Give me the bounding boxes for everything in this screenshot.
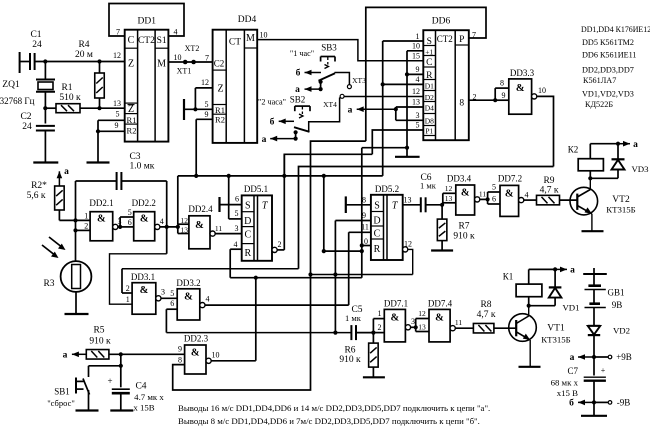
svg-text:10: 10 bbox=[412, 42, 420, 51]
svg-text:3: 3 bbox=[235, 224, 239, 233]
DD5.1 R input bbox=[230, 249, 242, 278]
svg-text:R1: R1 bbox=[61, 83, 72, 93]
DD7.2 output 4 bbox=[519, 191, 537, 203]
svg-text:1: 1 bbox=[416, 32, 420, 41]
svg-text:R2: R2 bbox=[127, 126, 137, 136]
NAND DD2.4 bbox=[181, 204, 214, 249]
svg-text:12: 12 bbox=[412, 87, 420, 96]
svg-text:6: 6 bbox=[492, 195, 496, 204]
svg-text:1 мк: 1 мк bbox=[420, 181, 437, 191]
NAND DD2.3 bbox=[178, 334, 209, 375]
svg-text:6: 6 bbox=[128, 218, 132, 227]
svg-text:&: & bbox=[140, 214, 149, 225]
svg-text:CT2: CT2 bbox=[437, 34, 453, 44]
svg-text:Z: Z bbox=[128, 59, 134, 70]
svg-text:DD2,DD3,DD7: DD2,DD3,DD7 bbox=[582, 66, 634, 75]
svg-text:SB1: SB1 bbox=[54, 387, 70, 397]
svg-text:5: 5 bbox=[235, 209, 239, 218]
DD7.1 input wires bbox=[373, 309, 384, 333]
svg-text:а: а bbox=[262, 135, 267, 145]
svg-text:1: 1 bbox=[84, 212, 88, 221]
svg-text:R: R bbox=[426, 71, 433, 81]
wire DD6 out2 to DD3.3 inputs bbox=[469, 79, 509, 103]
wire C3 to DD3.1 pin1 bbox=[110, 254, 167, 304]
wire reset bus bbox=[230, 148, 371, 280]
svg-text:C: C bbox=[374, 229, 381, 240]
wire C3 right vertical bbox=[165, 181, 169, 254]
wire DD3.1 pin2 bus bbox=[122, 269, 299, 293]
wire DD4 M out to DD6 C bbox=[257, 40, 423, 61]
svg-text:1: 1 bbox=[126, 295, 130, 304]
svg-text:9В: 9В bbox=[612, 300, 623, 310]
diode VD3 bbox=[612, 144, 650, 179]
wire B1 to y251 link bbox=[322, 176, 364, 253]
DD3.1 output 3 bbox=[156, 288, 177, 301]
svg-text:а: а bbox=[348, 106, 353, 116]
svg-text:68 мк х: 68 мк х bbox=[551, 378, 579, 388]
svg-text:х 15В: х 15В bbox=[133, 403, 154, 413]
DD2.2 output 4 bbox=[155, 217, 180, 229]
svg-text:S: S bbox=[245, 201, 251, 212]
svg-text:910 к: 910 к bbox=[453, 232, 475, 242]
svg-text:DD5.2: DD5.2 bbox=[375, 184, 399, 194]
DD7.2 input wires bbox=[488, 183, 500, 205]
ground (VT1) bbox=[519, 366, 541, 368]
svg-text:3: 3 bbox=[416, 111, 420, 120]
svg-text:К561ЛА7: К561ЛА7 bbox=[583, 76, 616, 85]
svg-text:VT1: VT1 bbox=[547, 324, 565, 334]
node a (K2) bbox=[616, 140, 638, 150]
svg-text:5,6 к: 5,6 к bbox=[27, 191, 46, 201]
svg-text:8: 8 bbox=[459, 99, 464, 109]
svg-text:P1: P1 bbox=[425, 127, 433, 136]
svg-text:DD3.4: DD3.4 bbox=[447, 174, 472, 184]
svg-text:R: R bbox=[374, 244, 381, 255]
svg-text:&: & bbox=[505, 188, 514, 199]
DD5.2 S bar tie bbox=[346, 196, 371, 213]
svg-text:DD1,DD4 К176ИЕ12: DD1,DD4 К176ИЕ12 bbox=[581, 25, 650, 34]
svg-text:R3: R3 bbox=[43, 279, 54, 289]
svg-text:DD2.1: DD2.1 bbox=[89, 198, 113, 208]
svg-text:DD2.3: DD2.3 bbox=[184, 334, 209, 344]
capacitor C2 bbox=[20, 108, 54, 162]
wire DD1 feedback loop pin4 to pin7 bbox=[109, 4, 184, 37]
svg-text:4: 4 bbox=[416, 75, 420, 84]
svg-text:8: 8 bbox=[362, 196, 366, 205]
wire DD2.1 pin2 / R3 column bbox=[73, 220, 90, 261]
svg-text:1 мк: 1 мк bbox=[345, 313, 362, 323]
svg-text:КТ315Б: КТ315Б bbox=[541, 335, 571, 345]
NAND DD2.1 bbox=[84, 198, 113, 241]
svg-text:R4: R4 bbox=[78, 40, 89, 50]
svg-text:"1 час": "1 час" bbox=[290, 49, 314, 58]
svg-text:Z: Z bbox=[128, 104, 134, 115]
svg-text:a: a bbox=[63, 351, 68, 361]
wire to net b (SB3) bbox=[296, 68, 321, 79]
svg-text:"2 часа": "2 часа" bbox=[258, 98, 286, 107]
DD3.4 output 11 bbox=[475, 190, 490, 202]
svg-text:1: 1 bbox=[378, 309, 382, 318]
svg-text:VD2: VD2 bbox=[613, 326, 630, 336]
note line 1 bbox=[178, 403, 490, 413]
battery GB1 bbox=[583, 268, 624, 310]
svg-text:+1: +1 bbox=[425, 48, 433, 57]
DD7.4 output 11 bbox=[450, 318, 473, 331]
svg-text:13: 13 bbox=[418, 323, 426, 332]
DD3.2 pin6 wire to C5 net bbox=[166, 309, 177, 332]
NAND DD7.2 bbox=[498, 174, 522, 217]
resistor R1 bbox=[45, 83, 124, 113]
relay K2 bbox=[568, 144, 618, 181]
wire DD1 R1,R2 pins to ground bbox=[96, 120, 125, 162]
svg-text:M: M bbox=[157, 59, 166, 70]
svg-text:S: S bbox=[374, 201, 380, 212]
svg-text:КТ315Б: КТ315Б bbox=[606, 205, 636, 215]
svg-text:13: 13 bbox=[113, 99, 121, 108]
svg-text:12: 12 bbox=[445, 184, 453, 193]
ground (C4) bbox=[110, 409, 133, 411]
svg-text:S: S bbox=[427, 37, 432, 47]
DD5.1 output 2 bbox=[272, 155, 284, 253]
svg-text:11: 11 bbox=[215, 224, 222, 233]
DD2.4 input wires bbox=[178, 224, 189, 233]
wire DD1 M output / jumper XT1 XT2 bbox=[168, 44, 213, 76]
ground (battery) bbox=[581, 402, 607, 415]
svg-text:&: & bbox=[516, 83, 525, 94]
svg-text:R: R bbox=[244, 248, 251, 259]
svg-text:3: 3 bbox=[411, 317, 415, 326]
svg-text:5: 5 bbox=[492, 183, 496, 192]
svg-text:R5: R5 bbox=[93, 326, 104, 336]
wire DD6 P1 pin5 bbox=[372, 130, 423, 154]
svg-text:&: & bbox=[461, 188, 470, 199]
transistor VT1 КТ315Б bbox=[509, 306, 571, 366]
DD5.1 S bar tie bbox=[220, 197, 242, 212]
wire D2/Q2 feedback line bbox=[308, 272, 412, 276]
svg-text:"сброс": "сброс" bbox=[47, 398, 75, 408]
svg-text:12: 12 bbox=[418, 309, 426, 318]
svg-text:&: & bbox=[390, 312, 399, 323]
svg-text:a: a bbox=[570, 266, 575, 276]
svg-text:4,7 к: 4,7 к bbox=[477, 310, 496, 320]
terminal XT4 bbox=[323, 94, 344, 109]
wire DD4 pin9 to bus bbox=[196, 119, 212, 176]
wire net a to DD6 D4/D8 bbox=[348, 106, 424, 121]
wire bus B2 (count/DD3.1 net) bbox=[299, 167, 554, 269]
svg-text:VT2: VT2 bbox=[612, 195, 630, 205]
svg-text:R2: R2 bbox=[215, 115, 225, 125]
ground (R3) bbox=[65, 313, 89, 315]
svg-text:-9В: -9В bbox=[617, 398, 631, 408]
svg-text:24: 24 bbox=[22, 122, 32, 132]
ground (VT2) bbox=[582, 230, 604, 232]
svg-text:DD2.2: DD2.2 bbox=[132, 198, 156, 208]
DD5.1 D input bbox=[229, 176, 242, 219]
svg-text:13: 13 bbox=[445, 194, 453, 203]
svg-text:5: 5 bbox=[128, 208, 132, 217]
wire bus B1 (data net) bbox=[178, 174, 383, 224]
svg-text:DD7.1: DD7.1 bbox=[384, 299, 408, 309]
node: R4/R1 junction bbox=[97, 106, 101, 110]
svg-text:R7: R7 bbox=[458, 222, 469, 232]
wire SB3 to XT3 bbox=[335, 73, 350, 85]
svg-text:4: 4 bbox=[525, 191, 529, 200]
capacitor C5 bbox=[345, 305, 373, 340]
svg-text:C3: C3 bbox=[129, 152, 140, 162]
svg-text:15: 15 bbox=[412, 52, 420, 61]
svg-text:+9В: +9В bbox=[616, 352, 632, 362]
IC DD1 К176ИЕ12 (CT2) bbox=[113, 17, 182, 142]
DD5.2 C input bbox=[349, 232, 371, 305]
svg-text:DD7.2: DD7.2 bbox=[498, 174, 522, 184]
svg-text:R8: R8 bbox=[480, 300, 491, 310]
svg-text:9: 9 bbox=[502, 91, 506, 100]
resistor R8 bbox=[473, 300, 516, 333]
wire bus B4 (P net) bbox=[173, 141, 366, 390]
terminal XT3 bbox=[347, 76, 366, 89]
svg-text:5: 5 bbox=[116, 110, 120, 119]
svg-text:&: & bbox=[195, 220, 204, 231]
svg-text:б: б bbox=[296, 68, 301, 79]
wire DD6 +1/R/XT4 net bbox=[395, 51, 423, 157]
svg-text:4: 4 bbox=[160, 217, 164, 226]
wire SB2 to XT4 bbox=[309, 97, 342, 132]
photoresistor R3 bbox=[43, 261, 91, 313]
svg-text:4: 4 bbox=[206, 295, 210, 304]
svg-text:C: C bbox=[128, 35, 135, 46]
svg-text:5: 5 bbox=[416, 121, 420, 130]
wire R2* to DD2.1 pin1 bbox=[59, 218, 90, 222]
resistor R7 bbox=[437, 205, 475, 250]
svg-text:2: 2 bbox=[378, 323, 382, 332]
resistor R6 bbox=[339, 333, 378, 377]
svg-text:11: 11 bbox=[479, 190, 486, 199]
note line 2 bbox=[178, 416, 480, 426]
capacitor C3 bbox=[76, 152, 167, 220]
relay K1 bbox=[503, 269, 555, 307]
svg-text:8: 8 bbox=[178, 356, 182, 365]
svg-text:5: 5 bbox=[170, 289, 174, 298]
resistor R9 bbox=[537, 176, 578, 205]
svg-text:3: 3 bbox=[161, 288, 165, 297]
svg-text:ZQ1: ZQ1 bbox=[2, 80, 20, 90]
svg-text:К1: К1 bbox=[503, 272, 514, 282]
svg-text:б: б bbox=[270, 117, 275, 128]
capacitor C7 bbox=[551, 357, 606, 402]
wire to net b (SB2) bbox=[270, 117, 294, 128]
svg-text:1.0 мк: 1.0 мк bbox=[130, 162, 155, 172]
svg-text:510 к: 510 к bbox=[59, 93, 81, 103]
node: R1/crystal junction bbox=[43, 106, 47, 110]
svg-text:б: б bbox=[569, 398, 574, 409]
DD7.4 input wires bbox=[416, 309, 429, 332]
svg-text:24: 24 bbox=[32, 40, 42, 50]
svg-text:VD1,VD2,VD3: VD1,VD2,VD3 bbox=[582, 90, 634, 99]
svg-text:C: C bbox=[426, 58, 432, 68]
resistor R5 bbox=[63, 326, 185, 361]
svg-text:а: а bbox=[633, 140, 638, 150]
pushbutton SB2 '2 часа' bbox=[258, 95, 310, 132]
svg-text:10: 10 bbox=[538, 86, 546, 95]
svg-text:C: C bbox=[244, 230, 251, 241]
svg-text:VD1: VD1 bbox=[562, 303, 579, 313]
svg-text:20 м: 20 м bbox=[75, 50, 93, 60]
svg-text:P: P bbox=[459, 35, 464, 45]
svg-text:Z: Z bbox=[217, 84, 223, 95]
svg-text:SB2: SB2 bbox=[290, 95, 306, 105]
ground (SB1) bbox=[76, 409, 99, 411]
DD7.1 output 3 bbox=[405, 317, 417, 330]
svg-text:DD6 К561ИЕ11: DD6 К561ИЕ11 bbox=[582, 51, 637, 60]
wire reset link to tie stem bbox=[362, 146, 409, 150]
svg-text:13: 13 bbox=[404, 196, 412, 205]
DD5.2 output 12 bbox=[403, 247, 413, 275]
NAND DD3.4 bbox=[445, 174, 475, 216]
DD2.1 output 3 bbox=[113, 217, 134, 229]
svg-text:R6: R6 bbox=[344, 346, 355, 356]
ground (R7) bbox=[431, 249, 453, 251]
svg-text:DD3.1: DD3.1 bbox=[131, 272, 155, 282]
svg-text:5: 5 bbox=[205, 100, 209, 109]
node: C1/ZQ1 junction bbox=[43, 59, 47, 63]
svg-text:4.7 мк х: 4.7 мк х bbox=[134, 392, 164, 402]
capacitor C6 bbox=[403, 173, 442, 212]
ground (R6) bbox=[363, 376, 385, 378]
diode VD2 bbox=[588, 308, 630, 358]
diode VD1 bbox=[549, 269, 580, 312]
svg-text:2: 2 bbox=[84, 222, 88, 231]
svg-text:XT3: XT3 bbox=[352, 76, 366, 85]
svg-text:а: а bbox=[570, 353, 575, 363]
svg-text:XT2: XT2 bbox=[185, 44, 200, 53]
svg-text:DD3.2: DD3.2 bbox=[176, 278, 200, 288]
svg-text:D4: D4 bbox=[425, 104, 434, 113]
svg-text:CT: CT bbox=[229, 38, 241, 48]
svg-text:R2*: R2* bbox=[31, 181, 47, 191]
node -9V bbox=[569, 398, 630, 409]
svg-text:+: + bbox=[601, 366, 606, 375]
node C6/R7/DD3.4 bbox=[440, 203, 444, 207]
DD2.3 output 10 bbox=[206, 278, 256, 364]
svg-text:&: & bbox=[140, 285, 149, 296]
svg-text:S1: S1 bbox=[157, 36, 167, 46]
svg-text:910 к: 910 к bbox=[89, 337, 111, 347]
svg-text:13: 13 bbox=[412, 98, 420, 107]
svg-text:XT4: XT4 bbox=[323, 100, 337, 109]
svg-text:8: 8 bbox=[500, 79, 504, 88]
DD3.4 input wires bbox=[443, 193, 456, 205]
svg-text:D: D bbox=[244, 216, 251, 227]
transistor VT2 КТ315Б bbox=[570, 178, 636, 230]
ground (DD1 R pins) bbox=[87, 161, 110, 163]
NAND DD3.2 bbox=[170, 278, 200, 320]
wire DD6 S pin1 and D1 net bbox=[381, 41, 424, 176]
DD3.3 label bbox=[510, 68, 535, 78]
capacitor C4 bbox=[107, 366, 164, 413]
svg-text:11: 11 bbox=[455, 318, 462, 327]
svg-text:4: 4 bbox=[234, 240, 238, 249]
svg-text:C2: C2 bbox=[214, 59, 225, 69]
NAND DD3.1 bbox=[126, 272, 156, 314]
node +9V bbox=[570, 352, 632, 363]
node a (K1) bbox=[553, 266, 575, 276]
svg-text:DD2.4: DD2.4 bbox=[188, 204, 213, 214]
svg-text:GB1: GB1 bbox=[607, 288, 624, 298]
flip-flop DD5.2 (К561ТМ2) bbox=[360, 184, 412, 260]
wire C5 net line bbox=[166, 331, 351, 335]
svg-text:9: 9 bbox=[362, 211, 366, 220]
pushbutton SB3 '1 час' bbox=[290, 43, 337, 81]
svg-text:910 к: 910 к bbox=[339, 355, 361, 365]
node C5/R6/DD7.1 bbox=[371, 331, 375, 335]
svg-text:DD7.4: DD7.4 bbox=[428, 299, 453, 309]
NAND DD7.1 bbox=[384, 299, 408, 342]
svg-text:C1: C1 bbox=[30, 30, 41, 40]
svg-text:C4: C4 bbox=[135, 382, 146, 392]
wire Q1/P1 line bbox=[284, 154, 372, 176]
op-amp U: NAND DD3.3 bbox=[509, 79, 532, 114]
ground (C2) bbox=[33, 161, 58, 163]
DD3.3 output 10 bbox=[532, 86, 554, 167]
IC DD6 К561ИЕ11 (CT2) bbox=[412, 17, 477, 141]
parts list text bbox=[581, 25, 650, 109]
svg-text:&: & bbox=[97, 214, 106, 225]
svg-text:9: 9 bbox=[178, 345, 182, 354]
wire to net a (SB3) bbox=[295, 80, 323, 95]
svg-text:10: 10 bbox=[360, 237, 368, 246]
svg-text:4,7 к: 4,7 к bbox=[540, 186, 559, 196]
svg-text:12: 12 bbox=[113, 51, 121, 60]
svg-text:&: & bbox=[184, 291, 193, 302]
svg-text:К2: К2 bbox=[568, 145, 579, 155]
wire DD4 pins12+5 common tie bbox=[184, 88, 213, 120]
svg-text:R9: R9 bbox=[543, 176, 554, 186]
NAND DD7.4 bbox=[428, 299, 453, 342]
crystal ZQ1 bbox=[0, 62, 55, 109]
resistor R2* bbox=[27, 167, 70, 220]
svg-text:10: 10 bbox=[260, 31, 268, 40]
resistor R4 bbox=[75, 40, 104, 108]
wire XT4 to DD6 D2 bbox=[344, 96, 424, 98]
light arrows for R3 bbox=[42, 237, 66, 258]
svg-text:6: 6 bbox=[170, 299, 174, 308]
wire DD6 feedback loop from P pin7 bbox=[366, 7, 486, 141]
svg-text:7: 7 bbox=[205, 54, 209, 63]
svg-text:DD1: DD1 bbox=[138, 17, 157, 27]
svg-text:10: 10 bbox=[174, 53, 182, 62]
svg-text:КД522Б: КД522Б bbox=[585, 100, 613, 109]
svg-text:DD6: DD6 bbox=[432, 17, 451, 27]
svg-text:DD5 К561ТМ2: DD5 К561ТМ2 bbox=[582, 38, 634, 47]
svg-text:Выводы 8 м/с DD1,DD4,DD6 и 7м/: Выводы 8 м/с DD1,DD4,DD6 и 7м/с DD2,DD3,… bbox=[178, 416, 480, 426]
svg-text:&: & bbox=[191, 348, 200, 359]
node: R4 top junction bbox=[97, 59, 101, 63]
IC DD4 К176ИЕ12 (CT) bbox=[201, 15, 268, 143]
svg-text:10: 10 bbox=[212, 351, 220, 360]
svg-text:х15 В: х15 В bbox=[557, 388, 578, 398]
svg-text:VD3: VD3 bbox=[631, 164, 649, 174]
DD3.2 output 4 bbox=[200, 295, 349, 308]
svg-text:+: + bbox=[107, 376, 112, 386]
svg-text:C7: C7 bbox=[567, 366, 578, 376]
NAND DD2.2 bbox=[128, 198, 156, 241]
DD5.2 D input bbox=[335, 221, 371, 333]
svg-text:6: 6 bbox=[235, 195, 239, 204]
flip-flop DD5.1 (К561ТМ2) bbox=[234, 184, 273, 261]
svg-text:2: 2 bbox=[278, 240, 282, 249]
svg-text:Выводы 16 м/с DD1,DD4,DD6 и 14: Выводы 16 м/с DD1,DD4,DD6 и 14 м/с DD2,D… bbox=[178, 403, 490, 413]
svg-text:R1: R1 bbox=[215, 105, 225, 115]
